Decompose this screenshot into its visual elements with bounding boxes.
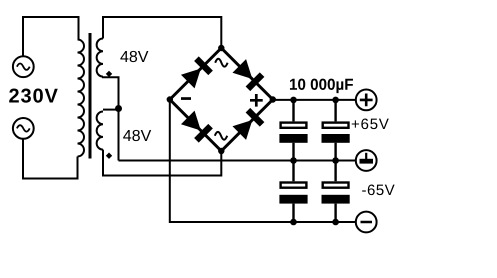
AC source V1: [13, 56, 34, 77]
AC source V2: [13, 118, 34, 139]
label 48V upper: [120, 51, 128, 62]
wire bridge minus down and bottom rail: [170, 100, 356, 223]
terminal minus: [356, 212, 377, 233]
bridge rectifier edges: [170, 48, 273, 151]
junction dots top rail: [290, 97, 297, 104]
label 10 000uF: [290, 79, 297, 90]
bridge node top: [218, 45, 224, 51]
terminal plus: [356, 90, 377, 111]
wire center tap down to mid rail: [118, 109, 120, 161]
wire top coil bottom end to center tap: [103, 77, 119, 109]
diode D4 bottom-right: [232, 108, 264, 140]
junction dots bottom rail: [290, 219, 297, 226]
terminal zero: [356, 150, 377, 171]
bridge node left: [167, 96, 173, 102]
center tap junction: [115, 105, 122, 112]
wire bottom coil top end: [103, 109, 119, 111]
wire bottom-left loop: [23, 139, 78, 179]
label -65V: [362, 190, 366, 191]
label 48V lower: [123, 130, 131, 141]
capacitor C1: [279, 100, 307, 161]
phasing dot winding 2: [106, 153, 112, 159]
diode D3 bottom-left: [181, 110, 213, 142]
transformer core: [89, 33, 92, 159]
label +65V: [352, 120, 359, 127]
bridge ac symbol top: [215, 59, 227, 67]
transformer secondary winding 2: [97, 112, 103, 150]
diode D2 top-right: [232, 59, 264, 91]
capacitor C3: [279, 161, 307, 223]
bridge node right: [270, 96, 276, 102]
bridge ac symbol bottom: [215, 132, 227, 140]
wire mid rail 0V: [119, 160, 356, 162]
wire bottom coil to bridge bottom: [103, 150, 221, 176]
bridge node bottom: [218, 148, 224, 154]
bridge plus sign: [250, 94, 263, 107]
transformer T1 primary winding: [78, 40, 85, 157]
diode D1 top-left: [181, 56, 213, 88]
junction dots mid rail: [290, 157, 297, 164]
capacitor C2: [322, 100, 350, 161]
wire bridge plus to top rail: [273, 99, 356, 101]
bridge minus sign: [181, 97, 191, 100]
capacitor C4: [322, 161, 350, 223]
transformer secondary winding 1: [97, 39, 103, 77]
phasing dot winding 1: [106, 71, 112, 77]
wire secondary top to bridge: [103, 17, 221, 45]
label 230V: [9, 89, 19, 103]
wire top-left loop: [23, 17, 79, 57]
